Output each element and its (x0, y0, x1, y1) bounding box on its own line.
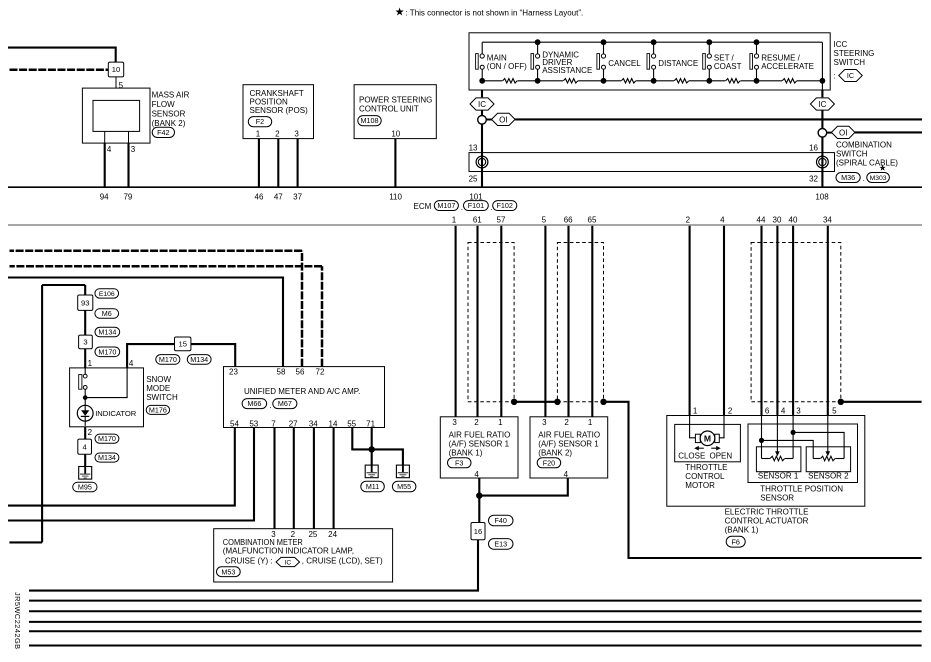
svg-text:ASSISTANCE: ASSISTANCE (542, 66, 592, 75)
svg-text:M107: M107 (437, 201, 455, 210)
svg-text:5: 5 (542, 215, 547, 224)
svg-text:THROTTLE: THROTTLE (685, 463, 727, 472)
svg-text:AIR FUEL RATIO: AIR FUEL RATIO (449, 430, 511, 439)
svg-text:OPEN: OPEN (710, 452, 733, 461)
svg-text:(BANK 1): (BANK 1) (725, 526, 759, 535)
svg-text::: : (834, 72, 836, 81)
svg-text:CONTROL: CONTROL (685, 472, 725, 481)
svg-text:SENSOR 2: SENSOR 2 (808, 472, 849, 481)
svg-text:.: . (269, 401, 271, 410)
svg-text:65: 65 (588, 215, 597, 224)
svg-text:10: 10 (391, 130, 400, 139)
svg-text:4: 4 (474, 470, 479, 479)
svg-text:M170: M170 (98, 347, 116, 356)
svg-text:FLOW: FLOW (152, 100, 176, 109)
svg-text:MOTOR: MOTOR (685, 481, 715, 490)
svg-text:57: 57 (497, 215, 506, 224)
svg-text:IC: IC (818, 100, 826, 109)
svg-text:1: 1 (498, 418, 503, 427)
svg-text:RESUME /: RESUME / (761, 53, 800, 62)
svg-text:SWITCH: SWITCH (836, 149, 868, 158)
svg-text:OI: OI (839, 128, 847, 137)
svg-text:COAST: COAST (714, 62, 742, 71)
svg-text:54: 54 (230, 419, 239, 428)
svg-text:55: 55 (347, 419, 356, 428)
svg-text:2: 2 (474, 418, 479, 427)
svg-text:CRUISE (Y) :: CRUISE (Y) : (225, 556, 273, 565)
svg-text:(A/F) SENSOR 1: (A/F) SENSOR 1 (538, 439, 599, 448)
svg-text:3: 3 (452, 418, 457, 427)
svg-text:3: 3 (294, 130, 299, 139)
svg-text:M: M (704, 433, 711, 443)
svg-text:2: 2 (275, 130, 280, 139)
svg-text:SENSOR: SENSOR (760, 494, 794, 503)
svg-text:SENSOR: SENSOR (152, 110, 186, 119)
svg-text:M134: M134 (98, 453, 116, 462)
svg-text:F102: F102 (497, 201, 513, 210)
svg-text:4: 4 (720, 215, 725, 224)
svg-text:23: 23 (229, 368, 238, 377)
svg-text:CONTROL UNIT: CONTROL UNIT (359, 105, 419, 114)
svg-text:CANCEL: CANCEL (608, 59, 641, 68)
svg-text:DISTANCE: DISTANCE (658, 59, 698, 68)
svg-text:(BANK 1): (BANK 1) (449, 448, 483, 457)
svg-text:(MALFUNCTION INDICATOR LAMP,: (MALFUNCTION INDICATOR LAMP, (223, 547, 354, 556)
svg-text:(ON / OFF): (ON / OFF) (487, 62, 527, 71)
svg-text:, CRUISE (LCD), SET): , CRUISE (LCD), SET) (302, 556, 383, 565)
svg-text:ECM: ECM (414, 202, 432, 211)
svg-text:IC: IC (478, 100, 486, 109)
svg-text:SENSOR (POS): SENSOR (POS) (250, 106, 309, 115)
svg-text:1: 1 (693, 407, 698, 416)
svg-text:58: 58 (277, 368, 286, 377)
svg-text:F101: F101 (468, 201, 484, 210)
svg-text:SWITCH: SWITCH (834, 58, 866, 67)
svg-text:M303: M303 (870, 175, 887, 182)
svg-text:34: 34 (823, 215, 832, 224)
svg-text:27: 27 (289, 419, 298, 428)
svg-text:61: 61 (473, 215, 482, 224)
svg-text:16: 16 (474, 527, 482, 536)
svg-text:UNIFIED METER AND A/C AMP.: UNIFIED METER AND A/C AMP. (244, 387, 360, 396)
svg-text:CLOSE: CLOSE (678, 452, 705, 461)
svg-text:M170: M170 (159, 355, 177, 364)
svg-text:M53: M53 (221, 567, 235, 576)
svg-text:3: 3 (542, 418, 547, 427)
svg-text:JR5WC2242GB: JR5WC2242GB (13, 592, 22, 650)
svg-text:94: 94 (100, 193, 109, 202)
svg-text:ELECTRIC THROTTLE: ELECTRIC THROTTLE (725, 508, 809, 517)
svg-text:SET /: SET / (714, 53, 735, 62)
svg-text:14: 14 (329, 419, 338, 428)
svg-text:25: 25 (308, 530, 317, 539)
svg-text:IC: IC (847, 71, 854, 80)
svg-text:M6: M6 (102, 309, 112, 318)
svg-text:4: 4 (129, 359, 134, 368)
svg-text:M95: M95 (78, 483, 92, 492)
svg-text:13: 13 (469, 143, 478, 152)
svg-text:(A/F) SENSOR 1: (A/F) SENSOR 1 (449, 439, 510, 448)
svg-text:M176: M176 (149, 405, 167, 414)
svg-text:4: 4 (83, 442, 87, 451)
svg-text:M11: M11 (366, 482, 379, 491)
svg-text:F2: F2 (256, 117, 264, 126)
svg-text:2: 2 (728, 407, 733, 416)
svg-text:AIR FUEL RATIO: AIR FUEL RATIO (538, 430, 600, 439)
svg-text:2: 2 (88, 428, 93, 437)
svg-text:SWITCH: SWITCH (146, 393, 178, 402)
svg-text:E13: E13 (494, 539, 507, 548)
svg-text:F42: F42 (157, 128, 169, 137)
svg-text:M108: M108 (361, 116, 379, 125)
svg-text:7: 7 (271, 419, 276, 428)
svg-text:F40: F40 (495, 516, 507, 525)
svg-text:THROTTLE POSITION: THROTTLE POSITION (760, 485, 843, 494)
svg-text:110: 110 (389, 193, 402, 202)
svg-text:SNOW: SNOW (146, 375, 171, 384)
svg-text:POWER STEERING: POWER STEERING (359, 96, 432, 105)
svg-text:COMBINATION: COMBINATION (836, 140, 892, 149)
svg-text:M170: M170 (98, 434, 116, 443)
svg-text:.: . (863, 174, 865, 183)
svg-text:MASS AIR: MASS AIR (152, 91, 190, 100)
svg-text:1: 1 (452, 215, 457, 224)
svg-text:(BANK 2): (BANK 2) (538, 448, 572, 457)
svg-text:6: 6 (765, 407, 770, 416)
svg-text:CONTROL ACTUATOR: CONTROL ACTUATOR (725, 517, 809, 526)
svg-text:(SPIRAL CABLE): (SPIRAL CABLE) (836, 158, 898, 167)
svg-text:ACCELERATE: ACCELERATE (761, 62, 814, 71)
svg-text:56: 56 (296, 368, 305, 377)
svg-text:37: 37 (293, 193, 302, 202)
svg-text:F20: F20 (543, 458, 555, 467)
svg-text:3: 3 (796, 407, 801, 416)
svg-text:: This connector is not shown: : This connector is not shown in “Harnes… (406, 8, 584, 17)
svg-text:1: 1 (256, 130, 261, 139)
svg-text:47: 47 (274, 193, 283, 202)
svg-text:34: 34 (309, 419, 318, 428)
svg-text:25: 25 (469, 174, 478, 183)
svg-text:STEERING: STEERING (834, 49, 875, 58)
svg-text:F6: F6 (732, 537, 740, 546)
svg-text:E106: E106 (99, 291, 115, 298)
svg-text:M134: M134 (190, 355, 208, 364)
svg-text:4: 4 (564, 470, 569, 479)
svg-text:F3: F3 (455, 458, 463, 467)
svg-text:3: 3 (131, 145, 136, 154)
svg-text:ICC: ICC (834, 40, 848, 49)
svg-text:INDICATOR: INDICATOR (95, 409, 137, 418)
svg-text:24: 24 (328, 530, 337, 539)
svg-text:M36: M36 (841, 173, 855, 182)
svg-text:40: 40 (789, 215, 798, 224)
svg-text:.: . (461, 203, 463, 212)
svg-text:53: 53 (249, 419, 258, 428)
svg-text:66: 66 (564, 215, 573, 224)
svg-text:46: 46 (255, 193, 264, 202)
svg-text:M134: M134 (98, 328, 116, 337)
svg-text:71: 71 (366, 419, 375, 428)
svg-text:COMBINATION METER: COMBINATION METER (223, 538, 303, 547)
svg-text:1: 1 (588, 418, 593, 427)
svg-text:108: 108 (815, 192, 829, 201)
svg-text:M55: M55 (397, 482, 411, 491)
svg-text:93: 93 (81, 298, 89, 307)
svg-text:30: 30 (773, 215, 782, 224)
svg-text:44: 44 (757, 215, 766, 224)
svg-text:M67: M67 (278, 399, 292, 408)
svg-text:5: 5 (832, 407, 837, 416)
svg-text:M66: M66 (247, 399, 261, 408)
svg-text:79: 79 (123, 193, 132, 202)
svg-text:SENSOR 1: SENSOR 1 (758, 472, 799, 481)
svg-text:2: 2 (686, 215, 691, 224)
svg-text:3: 3 (83, 338, 87, 347)
svg-text:OI: OI (499, 115, 507, 124)
svg-text:15: 15 (178, 340, 186, 349)
svg-text:IC: IC (285, 559, 292, 566)
svg-text:4: 4 (107, 145, 112, 154)
svg-text:2: 2 (564, 418, 569, 427)
svg-text:1: 1 (88, 359, 93, 368)
svg-text:10: 10 (112, 65, 120, 74)
svg-text:MAIN: MAIN (487, 53, 507, 62)
svg-text:4: 4 (781, 407, 786, 416)
svg-text:MODE: MODE (146, 384, 170, 393)
svg-text:72: 72 (316, 368, 325, 377)
svg-text:32: 32 (809, 174, 818, 183)
svg-text:16: 16 (809, 143, 818, 152)
